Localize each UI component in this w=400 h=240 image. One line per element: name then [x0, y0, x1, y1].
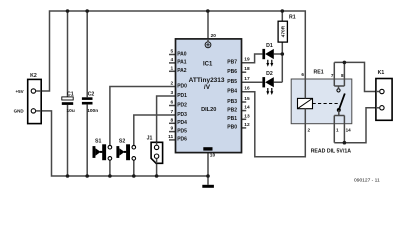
svg-text:PB6: PB6: [227, 69, 237, 75]
svg-text:S1: S1: [95, 139, 101, 145]
svg-text:/V: /V: [204, 84, 211, 91]
svg-text:PD2: PD2: [177, 102, 187, 108]
svg-text:S2: S2: [119, 139, 125, 145]
svg-text:17: 17: [244, 76, 250, 82]
svg-text:14: 14: [346, 127, 352, 132]
svg-text:ATTiny2313: ATTiny2313: [189, 77, 225, 84]
svg-text:R1: R1: [289, 15, 296, 21]
svg-text:6: 6: [171, 100, 174, 106]
svg-text:20: 20: [211, 33, 217, 39]
svg-text:DIL20: DIL20: [201, 107, 216, 113]
svg-text:PA0: PA0: [177, 51, 187, 57]
svg-text:+5V: +5V: [15, 89, 23, 94]
svg-text:10u: 10u: [67, 108, 75, 114]
svg-text:2: 2: [171, 81, 174, 87]
svg-text:7: 7: [171, 109, 174, 115]
svg-text:PB0: PB0: [227, 125, 237, 131]
svg-text:PD5: PD5: [177, 128, 187, 134]
svg-text:5: 5: [171, 49, 174, 55]
svg-text:9: 9: [171, 126, 174, 132]
svg-text:090127 - 11: 090127 - 11: [354, 178, 380, 184]
svg-text:15: 15: [244, 96, 250, 102]
svg-text:PB2: PB2: [227, 107, 237, 113]
svg-text:1: 1: [336, 127, 339, 132]
svg-text:PB7: PB7: [227, 60, 237, 66]
svg-text:470R: 470R: [281, 25, 287, 37]
svg-text:RE1: RE1: [314, 70, 324, 76]
svg-text:16: 16: [244, 86, 250, 92]
svg-text:12: 12: [244, 122, 250, 128]
svg-text:PA1: PA1: [177, 60, 187, 66]
svg-text:13: 13: [244, 113, 250, 119]
svg-text:PD4: PD4: [177, 120, 187, 126]
svg-text:PD6: PD6: [177, 137, 187, 143]
svg-text:10: 10: [210, 153, 216, 159]
svg-text:PA2: PA2: [177, 68, 187, 74]
svg-text:11: 11: [168, 134, 173, 140]
svg-text:2: 2: [308, 127, 311, 132]
svg-text:14: 14: [244, 105, 250, 111]
svg-text:PB4: PB4: [227, 89, 237, 95]
svg-text:D2: D2: [266, 71, 273, 77]
svg-text:PB3: PB3: [227, 99, 237, 105]
svg-text:C2: C2: [88, 91, 95, 97]
svg-text:PD1: PD1: [177, 93, 187, 99]
svg-text:8: 8: [171, 117, 174, 123]
svg-text:18: 18: [244, 66, 250, 72]
svg-text:7: 7: [331, 73, 334, 78]
svg-text:K2: K2: [30, 73, 37, 79]
svg-text:D1: D1: [266, 43, 273, 49]
svg-text:C1: C1: [67, 91, 74, 97]
svg-text:PB1: PB1: [227, 116, 237, 122]
svg-text:6: 6: [301, 72, 304, 77]
svg-text:GND: GND: [14, 109, 25, 114]
svg-text:1: 1: [171, 65, 174, 71]
svg-text:READ DIL 5V/1A: READ DIL 5V/1A: [311, 148, 352, 154]
svg-text:4: 4: [171, 57, 174, 63]
svg-text:PD3: PD3: [177, 112, 187, 118]
svg-text:PD0: PD0: [177, 83, 187, 89]
svg-text:PB5: PB5: [227, 79, 237, 85]
svg-text:100n: 100n: [87, 108, 98, 114]
svg-text:3: 3: [171, 90, 174, 96]
svg-text:K1: K1: [378, 70, 385, 76]
svg-text:19: 19: [244, 57, 250, 63]
svg-text:IC1: IC1: [203, 61, 213, 67]
svg-text:8: 8: [341, 73, 344, 78]
svg-text:J1: J1: [147, 136, 153, 142]
